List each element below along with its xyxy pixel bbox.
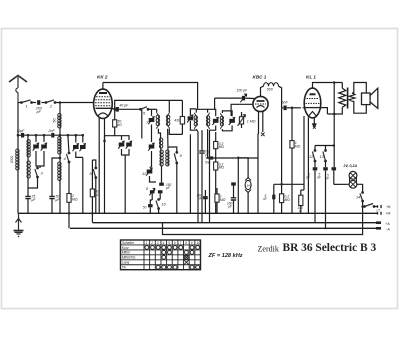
svg-text:2: 2 xyxy=(150,241,153,245)
node xyxy=(237,157,240,160)
wire xyxy=(158,129,160,138)
svg-text:MΩ: MΩ xyxy=(220,198,226,202)
wire xyxy=(28,177,38,188)
trimmer 7 xyxy=(148,116,154,124)
svg-text:4: 4 xyxy=(163,241,165,245)
node xyxy=(113,108,116,111)
svg-text:TA: TA xyxy=(122,266,127,270)
svg-text:MΩ: MΩ xyxy=(285,198,291,202)
wire xyxy=(291,148,293,213)
switch 2 xyxy=(45,100,56,104)
wire KK2 cathode down xyxy=(104,141,106,213)
wire xyxy=(27,178,29,196)
capacitor 5nF xyxy=(284,106,287,111)
wire top line to oscillator xyxy=(103,83,198,109)
wire xyxy=(176,163,178,213)
svg-text:Schalter: Schalter xyxy=(122,241,135,245)
svg-text:50: 50 xyxy=(143,206,147,210)
wire xyxy=(68,135,69,153)
svg-text:2000: 2000 xyxy=(10,156,14,165)
wire xyxy=(238,158,248,178)
wire xyxy=(167,129,169,150)
wire xyxy=(75,135,77,142)
tube KL1 xyxy=(304,88,321,118)
wire xyxy=(169,129,182,135)
wire xyxy=(160,148,163,150)
trimmer xyxy=(126,141,132,149)
capacitor 100pF mid xyxy=(203,196,208,199)
terminal +M xyxy=(378,212,382,215)
wire xyxy=(149,207,151,213)
wire terminal -M xyxy=(374,206,378,208)
capacitor 5nF a xyxy=(313,167,318,170)
wire tuning bus xyxy=(18,134,21,136)
resistor 100ohm xyxy=(299,195,303,205)
wire dashed grid KL1 xyxy=(292,107,299,109)
svg-text:MΩ: MΩ xyxy=(72,197,78,201)
wire secondary loop xyxy=(352,83,366,94)
coil 600 b xyxy=(58,137,61,155)
winding IF2 c xyxy=(220,113,223,129)
wire xyxy=(279,86,282,108)
wire xyxy=(307,117,309,213)
wire xyxy=(161,166,163,183)
wire osc cathode xyxy=(209,130,211,223)
switch 14 xyxy=(360,192,364,202)
wire xyxy=(151,151,153,167)
svg-text:BR 36 Selectric B 3: BR 36 Selectric B 3 xyxy=(283,242,377,254)
capacitor 200pF xyxy=(37,100,40,105)
capacitor 11pF xyxy=(21,133,24,138)
svg-text:3: 3 xyxy=(157,241,159,245)
switch 10 xyxy=(156,199,160,210)
wire xyxy=(189,134,191,213)
coil 1600 xyxy=(27,161,30,178)
wire xyxy=(82,135,84,142)
wire xyxy=(273,199,275,214)
jack TA xyxy=(245,178,251,193)
node xyxy=(68,212,71,215)
antenna xyxy=(9,76,27,103)
wire xyxy=(281,108,283,194)
svg-text:KL 1: KL 1 xyxy=(306,75,316,80)
capacitor 50uF xyxy=(49,196,54,198)
wire IF2c loop xyxy=(222,111,232,116)
resistor 0,2M det xyxy=(280,194,284,203)
trimmer C xyxy=(33,143,39,151)
wire xyxy=(91,197,93,223)
svg-text:pF: pF xyxy=(36,110,42,114)
capacitor xyxy=(148,204,153,207)
wire xyxy=(151,125,153,143)
svg-text:1 MΩ: 1 MΩ xyxy=(247,120,256,124)
coil 600 c xyxy=(159,138,162,148)
wire xyxy=(35,135,37,142)
wire xyxy=(341,83,343,89)
wire KBC1 cathode down xyxy=(257,111,260,133)
capacitor 8 xyxy=(150,190,155,193)
capacitor 5nF c xyxy=(332,167,337,170)
wire xyxy=(59,103,61,114)
trimmer xyxy=(212,117,218,125)
node xyxy=(17,134,20,137)
svg-text:Zerdik: Zerdik xyxy=(258,245,279,254)
wire xyxy=(314,146,316,151)
wire xyxy=(245,97,254,99)
capacitor 2nF xyxy=(51,133,54,138)
resistor 1M KL1 xyxy=(290,141,294,148)
trimmer osc xyxy=(187,115,193,123)
wire xyxy=(201,154,203,223)
wire xyxy=(150,176,157,182)
transformer core xyxy=(347,88,349,109)
wire KK2 bottom leads xyxy=(98,118,100,213)
svg-text:5nF: 5nF xyxy=(282,101,289,105)
capacitor 25uF xyxy=(25,196,30,198)
wire KL1 cathode right xyxy=(320,108,327,114)
wire xyxy=(287,107,292,109)
wire xyxy=(215,132,217,142)
wire bandpass top link xyxy=(115,100,183,119)
wire bracket xyxy=(115,136,129,140)
wire xyxy=(27,135,29,139)
trimmer mixer pad xyxy=(148,143,154,151)
coil 500 xyxy=(264,83,279,87)
wire xyxy=(159,193,161,199)
svg-text:Kurz: Kurz xyxy=(122,246,129,250)
terminal +A xyxy=(376,221,381,224)
svg-text:2nF: 2nF xyxy=(48,129,56,133)
resistor 50k KK2 xyxy=(113,120,117,127)
svg-text:MΩ: MΩ xyxy=(295,144,301,148)
coil 50 xyxy=(58,114,61,129)
svg-text:8: 8 xyxy=(146,187,148,191)
wire xyxy=(59,154,61,162)
svg-text:−M: −M xyxy=(386,205,391,209)
wire screen lead xyxy=(91,160,93,189)
svg-text:KK 2: KK 2 xyxy=(97,75,108,80)
wire xyxy=(27,199,29,213)
winding IF2 a xyxy=(194,113,197,130)
node xyxy=(35,134,38,137)
bus -A xyxy=(70,227,381,229)
winding bandfilter a xyxy=(156,112,160,129)
wire tap xyxy=(52,158,60,171)
wire xyxy=(237,158,239,214)
node KK2 cathode junction xyxy=(103,140,106,143)
trimmer xyxy=(73,143,79,151)
capacitor 150pF xyxy=(159,183,164,186)
switch 1 xyxy=(21,100,33,104)
wire xyxy=(51,134,53,136)
node xyxy=(91,212,94,215)
wire xyxy=(204,190,206,196)
resistor 0,3M xyxy=(214,142,218,149)
node xyxy=(333,81,336,84)
svg-text:500: 500 xyxy=(267,87,273,91)
transformer primary xyxy=(339,88,346,107)
wire xyxy=(163,201,363,235)
trimmer xyxy=(118,141,124,149)
bus +A xyxy=(93,222,382,224)
node xyxy=(43,134,46,137)
svg-text:−A: −A xyxy=(386,228,391,232)
wire switch5 drop xyxy=(141,109,143,138)
tube KK2 xyxy=(94,89,113,118)
wire xyxy=(59,128,61,135)
switch 13 xyxy=(323,150,327,162)
coil 1600 c xyxy=(160,150,163,166)
wire xyxy=(68,202,70,228)
wire IF2 top xyxy=(196,109,207,112)
wire xyxy=(150,200,152,204)
winding IF2 b xyxy=(206,113,209,130)
resistor 1M mid xyxy=(215,194,219,202)
wire xyxy=(314,161,316,167)
arrow pot xyxy=(238,115,246,127)
capacitor 100uF xyxy=(231,198,236,200)
svg-text:430: 430 xyxy=(174,119,180,123)
wire xyxy=(41,102,46,104)
node antenna junction xyxy=(59,101,62,104)
trimmer xyxy=(80,143,86,151)
wire KBC1 anode xyxy=(261,86,264,96)
wire antenna down xyxy=(17,103,19,136)
resistor 2M xyxy=(67,194,71,203)
wire KBC1 cathode x xyxy=(262,111,264,132)
capacitor 5nF2 xyxy=(272,195,275,200)
bus chassis xyxy=(18,212,378,214)
wire xyxy=(119,108,141,110)
coil 1600 b xyxy=(58,162,61,181)
wire xyxy=(303,116,305,190)
wire xyxy=(215,170,217,213)
wire xyxy=(247,193,249,214)
node xyxy=(59,134,62,137)
wire xyxy=(124,155,126,213)
capacitor 5nF b xyxy=(323,167,328,170)
svg-text:11: 11 xyxy=(142,171,146,176)
wire grid drop xyxy=(214,98,216,109)
terminal -A xyxy=(376,227,381,230)
node xyxy=(361,205,364,208)
coil antenna 2000 xyxy=(16,149,19,170)
svg-text:5: 5 xyxy=(168,241,170,245)
coil 1600 d xyxy=(166,150,169,166)
wire xyxy=(59,181,61,214)
svg-text:7: 7 xyxy=(180,241,182,245)
svg-text:kΩ: kΩ xyxy=(118,123,123,127)
capacitor 100pF det2 xyxy=(231,182,236,185)
transformer secondary xyxy=(349,93,355,101)
switch 3 xyxy=(35,167,38,178)
switch 9 xyxy=(174,152,178,164)
wire xyxy=(122,149,130,155)
svg-text:MΩ: MΩ xyxy=(219,145,225,149)
wire detector line xyxy=(282,107,284,109)
trimmer xyxy=(229,117,235,125)
wire KL1 anode xyxy=(313,83,343,89)
switch 6 xyxy=(93,167,97,178)
ground xyxy=(14,213,24,234)
wire xyxy=(51,199,53,213)
svg-text:MΩ: MΩ xyxy=(219,166,225,170)
node xyxy=(27,134,30,137)
wire xyxy=(32,102,37,104)
wire xyxy=(233,185,235,198)
svg-text:+M: +M xyxy=(386,212,391,216)
capacitor 40pF xyxy=(116,107,119,112)
svg-text:1: 1 xyxy=(26,104,28,109)
svg-text:40 pF: 40 pF xyxy=(120,104,130,108)
wire osc loop xyxy=(190,109,196,116)
wire coil tops xyxy=(156,109,158,112)
wire antenna to switch 1 xyxy=(18,102,22,104)
switch table xyxy=(121,240,201,270)
lamp 1 xyxy=(349,171,357,179)
wire xyxy=(300,190,302,195)
wire xyxy=(273,184,275,195)
wire xyxy=(300,206,302,214)
svg-text:8: 8 xyxy=(185,241,187,245)
resistor 0,2M xyxy=(214,162,218,170)
svg-text:2V, 0,2A: 2V, 0,2A xyxy=(343,164,358,168)
svg-text:ZF = 128 kHz: ZF = 128 kHz xyxy=(208,253,243,259)
wire transformer primary bottom xyxy=(327,107,342,114)
switch 5 xyxy=(140,107,149,111)
wire xyxy=(76,152,83,158)
resistor 1M volume xyxy=(239,117,243,124)
wire to KK2 grid xyxy=(55,102,94,104)
wire lamp bus xyxy=(334,183,349,185)
svg-text:10: 10 xyxy=(196,241,200,245)
wire xyxy=(36,151,44,166)
node xyxy=(59,157,62,160)
wire xyxy=(333,83,335,168)
svg-text:Lang: Lang xyxy=(122,261,130,265)
wire xyxy=(51,171,53,196)
node xyxy=(75,134,78,137)
node xyxy=(67,134,70,137)
wire xyxy=(257,134,259,214)
wire xyxy=(68,162,70,194)
trimmer C xyxy=(41,143,47,151)
wire cathode link xyxy=(105,127,115,141)
wire xyxy=(201,130,203,150)
capacitor 0,2uF xyxy=(199,151,204,153)
switch 12 xyxy=(312,150,316,162)
wire xyxy=(27,157,29,161)
resistor 50k screen xyxy=(90,189,94,197)
node xyxy=(82,134,85,137)
wire xyxy=(196,129,198,223)
wire xyxy=(314,170,316,222)
svg-text:1: 1 xyxy=(146,241,148,245)
wire xyxy=(241,112,243,117)
wire xyxy=(151,109,153,116)
capacitor padder 430 xyxy=(180,117,184,125)
wire xyxy=(150,166,152,168)
tube KBC1 xyxy=(253,96,268,111)
wire xyxy=(82,157,84,213)
wire xyxy=(54,134,83,136)
wire xyxy=(24,134,51,136)
wire xyxy=(17,170,19,213)
svg-text:14: 14 xyxy=(356,196,360,200)
wire xyxy=(148,108,157,110)
svg-text:6: 6 xyxy=(174,241,176,245)
wire heater bus xyxy=(315,145,334,147)
wire xyxy=(43,135,45,142)
node xyxy=(333,144,336,147)
switch 15 mains xyxy=(364,204,375,208)
svg-text:+A: +A xyxy=(386,222,391,226)
svg-text:Mittel: Mittel xyxy=(122,251,130,255)
trimmer 11 xyxy=(146,168,152,176)
svg-text:9: 9 xyxy=(191,241,193,245)
wire lamp loop xyxy=(349,178,351,183)
node xyxy=(291,107,294,110)
capacitor 100pF det xyxy=(242,96,245,101)
coil 600 xyxy=(27,140,30,157)
wire KBC1 grid left xyxy=(231,104,253,116)
capacitor 5nF det xyxy=(209,156,214,159)
svg-text:KBC 1: KBC 1 xyxy=(253,75,267,80)
lamp 2 xyxy=(349,180,357,188)
wire y184 row xyxy=(274,183,304,185)
wire xyxy=(281,203,283,214)
switch 4 xyxy=(66,152,70,163)
wire trimmer pair down xyxy=(39,166,41,168)
wire xyxy=(17,135,19,149)
svg-text:6A: 6A xyxy=(247,184,251,188)
speaker xyxy=(362,88,378,108)
wire xyxy=(95,178,97,214)
wire osc right loop xyxy=(208,109,216,116)
svg-text:Mittel/Tel.: Mittel/Tel. xyxy=(122,256,136,260)
wire xyxy=(213,157,259,159)
wire y158 row xyxy=(206,157,210,159)
trimmer arrow xyxy=(240,94,246,102)
wire KK2 anode top xyxy=(102,83,104,90)
capacitor 50pF xyxy=(158,190,163,193)
svg-text:100 pF: 100 pF xyxy=(237,89,248,93)
wire xyxy=(216,188,218,194)
wire grid line xyxy=(215,97,242,99)
wire KL1 below xyxy=(313,117,315,124)
winding bandfilter b xyxy=(166,112,170,129)
wire xyxy=(291,108,293,141)
wire KK2 to mixer xyxy=(112,108,115,109)
